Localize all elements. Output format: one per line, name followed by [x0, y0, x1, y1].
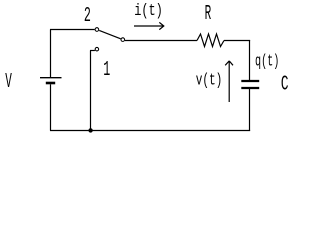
svg-text:i(t): i(t): [134, 2, 163, 21]
wire stub to contact 1: [90, 50, 95, 52]
battery bottom lead wire: [50, 84, 52, 130]
svg-text:2: 2: [84, 5, 91, 28]
battery V long plate: [40, 77, 62, 79]
battery V short plate: [46, 82, 55, 85]
switch contact 1 circle: [95, 47, 99, 51]
wire right vertical bottom: [249, 89, 251, 131]
current arrow i(t): [134, 22, 164, 29]
resistor R zigzag: [197, 34, 224, 47]
wire switch position 1 vertical: [90, 51, 92, 131]
junction dot: [88, 128, 92, 132]
wire right vertical top (to capacitor): [249, 40, 251, 80]
wire resistor to right corner: [224, 40, 250, 42]
wire from pole to resistor: [125, 40, 197, 42]
capacitor C top plate: [241, 80, 259, 82]
wire left vertical from top wire down to battery: [50, 30, 52, 78]
switch contact 2 circle: [95, 28, 99, 32]
switch arm blade: [99, 30, 121, 38]
svg-text:V: V: [5, 71, 12, 94]
voltage arrow v(t): [225, 61, 233, 102]
svg-text:C: C: [281, 73, 289, 96]
bottom wire: [50, 130, 250, 132]
svg-text:R: R: [205, 3, 212, 26]
wire top-left horizontal to switch contact 2: [50, 29, 95, 31]
svg-text:q(t): q(t): [255, 53, 279, 72]
svg-text:1: 1: [103, 59, 110, 82]
svg-text:v(t): v(t): [196, 71, 223, 90]
capacitor C bottom plate: [241, 87, 259, 89]
switch pole circle: [121, 38, 125, 42]
